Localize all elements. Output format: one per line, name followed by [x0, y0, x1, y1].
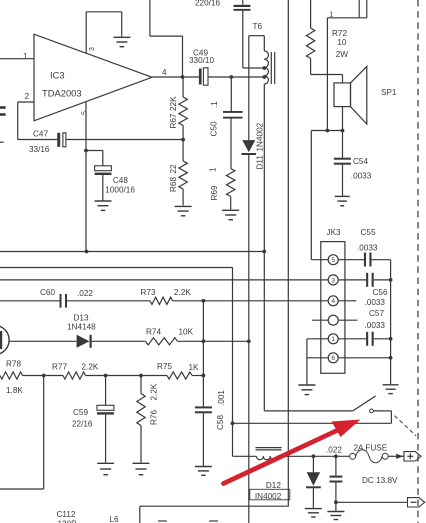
wire D11 anode: [248, 36, 250, 140]
diode D13: [77, 335, 92, 348]
node output dot at top-wire junction: [181, 75, 185, 79]
SP1 label: [381, 88, 397, 97]
diode D11: [242, 140, 257, 155]
JK3 pin 3 circle: [328, 275, 338, 285]
wire top connector down: [326, 18, 328, 131]
wire line F b: [86, 375, 168, 377]
svg-text:10K: 10K: [179, 328, 194, 337]
node line A pin5 dot: [85, 250, 89, 254]
JK3 label: [327, 228, 342, 237]
wire fuse to plus terminal: [388, 455, 404, 457]
svg-text:C112: C112: [57, 510, 76, 519]
svg-text:.001: .001: [217, 390, 226, 406]
R72 labels: [332, 29, 348, 59]
wire JK3 blank pin left: [312, 319, 329, 321]
svg-text:22/16: 22/16: [72, 420, 93, 429]
node R74 line to D11 vertical dot: [247, 339, 251, 343]
resistor R69: [227, 169, 235, 210]
wire switch return line: [233, 422, 392, 424]
svg-text:D11: D11: [256, 155, 265, 170]
node .022 cap branch dot: [334, 454, 338, 458]
inductor coil: [256, 456, 277, 459]
capacitor C57: [366, 332, 391, 346]
node line F dot at C58: [202, 374, 206, 378]
wire line F c: [192, 375, 203, 377]
wire pin 4 output: [152, 76, 199, 78]
R69 labels: [208, 167, 219, 201]
svg-text:1: 1: [23, 52, 28, 61]
node minus line dot: [334, 500, 338, 504]
D12 labels: [255, 481, 282, 501]
R68 labels: [169, 164, 178, 192]
wire rail down to JK3 pin5: [311, 131, 328, 260]
switch lever: [353, 396, 376, 411]
C57 labels: [365, 309, 386, 330]
node pin6 bus dot: [389, 356, 393, 360]
DC 13.8V label: [362, 476, 398, 485]
wire line B to power switch net: [0, 268, 233, 457]
capacitor C56: [366, 273, 391, 287]
wire pin1 to C57: [338, 338, 366, 340]
node line D dot at C58 vertical: [202, 299, 206, 303]
2A FUSE label: [354, 444, 388, 453]
svg-text:R75: R75: [157, 362, 172, 371]
wire pin 1 input: [0, 52, 34, 61]
resistor R76: [137, 376, 145, 463]
red arrow annotation: [224, 420, 361, 484]
svg-text:2.2K: 2.2K: [82, 363, 99, 372]
diode D12 shunt: [306, 456, 321, 508]
resistor R77: [63, 372, 86, 379]
svg-text:.0033: .0033: [365, 298, 386, 307]
svg-text:1000/16: 1000/16: [105, 186, 135, 195]
wire JK3 pin6 right: [338, 357, 391, 359]
fuse F1: [350, 450, 389, 463]
C50 labels: [210, 101, 220, 137]
op-amp IC3 TDA2003 triangle: [34, 34, 152, 121]
svg-text:.1: .1: [210, 101, 219, 108]
dashed switch throw: [395, 416, 417, 436]
wire JK3 blank pin right stub: [338, 319, 358, 321]
wire line A (pin5 net): [0, 251, 264, 253]
dashed border: [417, 0, 419, 523]
wire minus line: [336, 501, 408, 503]
svg-text:1: 1: [208, 167, 217, 172]
svg-text:.022: .022: [326, 446, 342, 455]
node line A T6 dot: [262, 250, 266, 254]
svg-text:D13: D13: [74, 314, 89, 323]
svg-text:R68: R68: [169, 177, 178, 192]
node C56 bus dot: [389, 278, 393, 282]
svg-text:D12: D12: [266, 481, 281, 490]
node D12 branch dot: [312, 454, 316, 458]
svg-text:R78: R78: [6, 360, 21, 369]
wire pin 2 input: [18, 92, 34, 140]
svg-text:R77: R77: [52, 363, 67, 372]
terminal minus flag: [408, 498, 425, 507]
node C57 bus dot: [389, 337, 393, 341]
speaker SP1: [334, 66, 367, 130]
wire pin 5 stub: [85, 102, 87, 252]
inductor core: [256, 448, 282, 450]
JK3 pin 5 circle: [328, 255, 338, 265]
node T6 tap dot upper: [262, 66, 266, 70]
wire line E right: [178, 340, 249, 342]
svg-text:C50: C50: [210, 121, 219, 136]
wire long vertical bus: [287, 0, 289, 506]
wire C48 branch: [86, 151, 103, 166]
svg-text:C59: C59: [73, 408, 88, 417]
node C48 branch dot: [84, 149, 88, 153]
wire fuse feed line: [233, 455, 350, 457]
R73 labels: [141, 288, 192, 297]
terminal plus flag: [404, 452, 421, 461]
wire line E from transistor: [9, 340, 77, 342]
ground under D12: [305, 509, 322, 517]
capacitor C48: [95, 166, 136, 201]
.022 label: [326, 446, 342, 455]
wire stub at left edge: [0, 141, 4, 143]
wire line C to JK3 pin3: [0, 279, 329, 281]
svg-text:.0033: .0033: [357, 244, 378, 253]
node line F dot at C59: [104, 374, 108, 378]
svg-text:6: 6: [331, 355, 335, 362]
transformer T6 primary: [249, 36, 269, 252]
D11 labels: [256, 122, 265, 169]
wire output to T6 tap: [208, 76, 264, 78]
svg-text:L6: L6: [110, 515, 120, 523]
transistor Q left edge: [0, 325, 9, 354]
svg-text:1K: 1K: [189, 363, 200, 372]
svg-text:.0033: .0033: [365, 321, 386, 330]
C54 labels: [351, 157, 372, 181]
R78 labels: [6, 360, 23, 396]
svg-text:2.2K: 2.2K: [174, 288, 191, 297]
svg-text:.0033: .0033: [351, 172, 372, 181]
svg-text:R73: R73: [141, 288, 156, 297]
ground under cap bus: [383, 385, 399, 394]
svg-text:C54: C54: [353, 157, 368, 166]
svg-text:R74: R74: [146, 328, 161, 337]
svg-text:C55: C55: [361, 228, 376, 237]
svg-text:120P: 120P: [58, 520, 78, 523]
svg-text:R69: R69: [210, 185, 219, 200]
pin 3 label: [89, 47, 96, 51]
svg-text:10: 10: [337, 38, 347, 47]
resistor R75: [167, 372, 192, 379]
ground under pin 3: [113, 37, 130, 46]
wire line E middle: [92, 340, 146, 342]
svg-text:C56: C56: [373, 288, 388, 297]
resistor R67: [179, 77, 187, 140]
svg-text:C48: C48: [113, 176, 128, 185]
R76 labels: [150, 383, 159, 425]
svg-text:C58: C58: [216, 415, 225, 430]
svg-text:1: 1: [330, 12, 334, 19]
ground under C54: [335, 196, 350, 205]
connector stub top right: [327, 0, 366, 18]
wire pin5 to C55: [338, 259, 364, 261]
component stub 2 in box: [209, 520, 218, 522]
svg-text:1.8K: 1.8K: [6, 386, 23, 395]
svg-text:5: 5: [331, 257, 335, 264]
svg-text:4: 4: [162, 68, 167, 77]
node line F dot at R76: [139, 374, 143, 378]
C55 labels: [357, 228, 378, 253]
wire JK3 pin6 left: [307, 357, 329, 359]
IN4002 label box: [250, 489, 290, 500]
capacitor C55: [364, 253, 391, 267]
wire speaker bottom rail: [311, 130, 342, 132]
wire cap ground bus: [390, 260, 392, 385]
JK3 pin 4 circle: [328, 296, 338, 306]
wire switch output: [373, 411, 391, 423]
pin 5 label: [82, 111, 89, 115]
wire branch down-left L: [0, 376, 44, 490]
wire line F a: [23, 375, 64, 377]
wire pin 3 to ground: [86, 12, 122, 54]
ground under R68: [175, 206, 192, 215]
wire line D middle segment: [67, 300, 150, 302]
R67 labels: [169, 96, 178, 129]
svg-text:R67: R67: [169, 113, 178, 128]
wire switch feed: [264, 252, 353, 411]
wire line D left segment: [0, 300, 60, 302]
switch contact: [370, 409, 374, 413]
node T6 tap dot lower: [262, 75, 266, 79]
svg-text:3: 3: [331, 277, 335, 284]
svg-text:5: 5: [82, 111, 89, 115]
arrowhead on plus wire: [396, 454, 403, 459]
capacitor C60: [40, 288, 93, 308]
capacitor C58: [195, 301, 212, 466]
C56 labels: [365, 288, 388, 307]
svg-text:2.2K: 2.2K: [150, 383, 159, 400]
svg-text:DC 13.8V: DC 13.8V: [362, 476, 398, 485]
svg-text:C47: C47: [33, 130, 48, 139]
svg-text:2A FUSE: 2A FUSE: [354, 444, 388, 453]
connector pin 1 label: [330, 12, 334, 19]
C58 labels: [216, 390, 226, 430]
box module outline: [140, 506, 289, 523]
node line F dot at branch box: [42, 374, 46, 378]
svg-text:C57: C57: [369, 309, 384, 318]
wire 220/16 cap to T6 tap: [243, 11, 264, 68]
svg-text:330/10: 330/10: [189, 56, 214, 65]
capacitor C49: [189, 49, 214, 86]
JK3 pin 6 circle: [328, 353, 338, 363]
capacitor fragment at left edge: [0, 106, 6, 116]
wire JK3 pin4 right stub: [338, 300, 356, 302]
JK3 pin 1 circle: [328, 334, 338, 344]
C112 label: [57, 510, 78, 523]
wire from top edge to output node: [150, 0, 183, 77]
ground under C48: [95, 201, 112, 210]
C59 labels: [72, 408, 93, 429]
wire JK3 pin1 left to ground: [307, 339, 329, 385]
component stub 1 in box: [158, 520, 167, 522]
resistor R68: [179, 140, 187, 206]
resistor R78: [0, 372, 23, 379]
svg-text:1N4002: 1N4002: [256, 122, 265, 151]
wire R72 to speaker: [311, 74, 343, 76]
svg-text:2: 2: [24, 92, 29, 101]
capacitor C54: [334, 131, 351, 196]
svg-text:22K: 22K: [169, 96, 178, 111]
resistor R73: [150, 297, 173, 304]
wire line D right segment to JK3 pin4: [173, 300, 329, 302]
wire pin3 to C56: [338, 279, 366, 281]
R77 labels: [52, 363, 99, 372]
node R67/R68 junction dot: [181, 138, 185, 142]
node line E dot at C58 vertical: [202, 339, 206, 343]
svg-text:JK3: JK3: [327, 228, 342, 237]
svg-text:IC3: IC3: [50, 70, 65, 81]
capacitor .022 shunt: [330, 456, 343, 511]
ground left of JK3 bottom: [298, 385, 315, 395]
node line B switch return dot: [231, 421, 235, 425]
node speaker rail dot right: [341, 129, 345, 133]
svg-text:R76: R76: [150, 410, 159, 425]
T6 label: [253, 22, 263, 31]
svg-text:1: 1: [331, 336, 335, 343]
T6 core: [271, 52, 274, 84]
capacitor 220/16 at top: [195, 0, 251, 11]
capacitor C47: [29, 130, 66, 155]
svg-text:220/16: 220/16: [195, 0, 220, 8]
svg-text:SP1: SP1: [381, 88, 397, 97]
capacitor C59: [97, 376, 114, 463]
svg-text:.022: .022: [77, 289, 93, 298]
L6 label: [110, 515, 120, 523]
resistor R72: [306, 0, 314, 75]
R75 labels: [157, 362, 199, 372]
svg-text:T6: T6: [253, 22, 263, 31]
svg-text:1N4148: 1N4148: [67, 323, 96, 332]
R74 labels: [146, 328, 194, 337]
ground under C59: [97, 463, 114, 474]
svg-text:3: 3: [89, 47, 96, 51]
ground under C58: [195, 467, 212, 476]
ground under .022 cap: [327, 512, 344, 520]
svg-text:C60: C60: [40, 288, 55, 297]
ground under R76: [133, 463, 150, 474]
JK3 pin blank circle: [328, 315, 338, 325]
svg-text:33/16: 33/16: [29, 145, 50, 154]
svg-text:22: 22: [169, 164, 178, 174]
wire D11 cathode long vertical: [248, 155, 250, 523]
ground under R69: [222, 210, 239, 219]
wire C47 feedback line: [18, 139, 183, 141]
pin 4 label: [162, 68, 167, 77]
svg-text:4: 4: [331, 298, 335, 305]
node C50 branch dot: [229, 75, 233, 79]
node speaker rail dot left: [326, 129, 330, 133]
D13 labels: [67, 314, 96, 332]
resistor R74: [146, 338, 178, 345]
svg-text:2W: 2W: [336, 50, 349, 59]
svg-text:TDA2003: TDA2003: [42, 88, 82, 99]
capacitor C50: [223, 77, 243, 169]
svg-text:R72: R72: [332, 29, 347, 38]
connector JK3 box: [321, 242, 345, 374]
